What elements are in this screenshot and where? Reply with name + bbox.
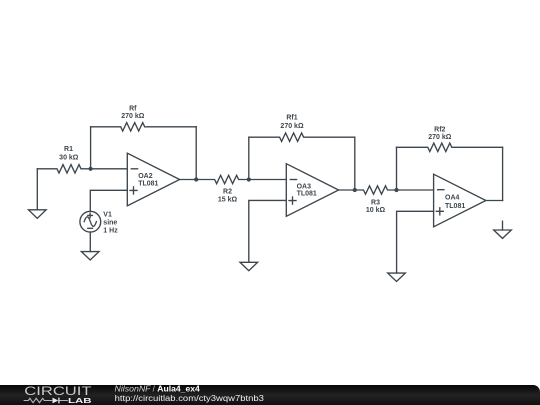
resistor R1 bbox=[37, 165, 127, 173]
op-amp U1 OA2 triangle bbox=[127, 153, 179, 206]
svg-text:Rf2: Rf2 bbox=[434, 126, 445, 133]
svg-text:15 kΩ: 15 kΩ bbox=[218, 197, 238, 204]
resistor Rf2 feedback bbox=[397, 143, 503, 151]
wire R3 junction vertical to Rf2 row bbox=[396, 147, 398, 190]
resistor Rf1 feedback bbox=[249, 133, 355, 141]
wire Rf2 right vertical to OA4 output bbox=[502, 147, 504, 200]
wire OA3 output row with resistor R3 bbox=[339, 186, 434, 194]
svg-text:sine: sine bbox=[103, 220, 117, 227]
op-amp OA2 plus sign bbox=[130, 187, 137, 194]
resistor Rf feedback bbox=[91, 123, 197, 131]
wire R2 junction vertical to Rf1 row bbox=[248, 137, 250, 179]
wire V1 top to OA2 plus input bbox=[90, 190, 127, 211]
svg-text:OA4: OA4 bbox=[445, 195, 460, 202]
svg-text:NilsonNF: NilsonNF bbox=[115, 385, 152, 394]
ground (OA3 plus input) bbox=[240, 262, 258, 270]
svg-text:Rf1: Rf1 bbox=[286, 115, 297, 122]
junction node after R1 bbox=[89, 167, 93, 171]
svg-text:R1: R1 bbox=[64, 146, 73, 153]
svg-text:LAB: LAB bbox=[68, 396, 92, 405]
svg-text:R2: R2 bbox=[223, 189, 232, 196]
wire OA4 plus input to ground drop bbox=[397, 211, 434, 273]
wire Rf right vertical to output bbox=[195, 127, 197, 180]
svg-text:10 kΩ: 10 kΩ bbox=[366, 207, 386, 214]
svg-text:TL081: TL081 bbox=[297, 191, 317, 198]
wire V1 bottom to ground bbox=[89, 232, 91, 252]
V1 minus polarity mark bbox=[88, 227, 93, 229]
svg-text:Aula4_ex4: Aula4_ex4 bbox=[157, 385, 200, 394]
svg-text:TL081: TL081 bbox=[445, 203, 465, 210]
voltage source V1 circle bbox=[80, 211, 101, 232]
junction node after R3 bbox=[394, 188, 398, 192]
svg-text:OA3: OA3 bbox=[297, 184, 312, 191]
wire Rf1 right vertical to OA3 output bbox=[354, 137, 356, 190]
svg-text:270 kΩ: 270 kΩ bbox=[428, 134, 452, 141]
V1 sine wave bbox=[84, 217, 96, 227]
svg-text:R3: R3 bbox=[371, 199, 380, 206]
svg-text:270 kΩ: 270 kΩ bbox=[121, 113, 145, 120]
svg-text:1 Hz: 1 Hz bbox=[103, 228, 118, 235]
svg-text:V1: V1 bbox=[103, 212, 112, 219]
ground (floating near output) stem bbox=[502, 221, 504, 230]
svg-text:Rf: Rf bbox=[129, 106, 137, 113]
ground (OA4 plus input) bbox=[388, 273, 406, 281]
wire node A vertical to feedback row bbox=[90, 127, 92, 169]
op-amp OA3 minus sign bbox=[290, 179, 296, 181]
junction node OA2 output bbox=[194, 177, 198, 181]
op-amp OA4 minus sign bbox=[438, 189, 444, 191]
junction node after R2 bbox=[247, 177, 251, 181]
footer logo resistor squiggle bbox=[24, 398, 68, 402]
ground (below V1) bbox=[81, 252, 99, 260]
op-amp OA4 plus sign bbox=[436, 208, 443, 215]
op-amp OA3 plus sign bbox=[289, 197, 296, 204]
ground (left of R1) bbox=[29, 210, 47, 219]
svg-text:30 kΩ: 30 kΩ bbox=[59, 154, 79, 161]
svg-text:OA2: OA2 bbox=[138, 173, 153, 180]
ground (floating near output) bbox=[494, 230, 512, 238]
wire OA4 output to feedback corner bbox=[486, 200, 503, 202]
wire OA2 output row with resistor R2 bbox=[180, 175, 287, 183]
svg-text:TL081: TL081 bbox=[138, 181, 158, 188]
wire OA3 plus input to ground drop bbox=[249, 200, 286, 262]
op-amp U3 OA4 triangle bbox=[434, 174, 486, 227]
wire R1 left lead to ground bbox=[36, 169, 38, 210]
op-amp OA2 minus sign bbox=[131, 168, 137, 170]
svg-text:http://circuitlab.com/cty3wqw7: http://circuitlab.com/cty3wqw7btnb3 bbox=[115, 394, 264, 403]
svg-text:270 kΩ: 270 kΩ bbox=[280, 123, 304, 130]
V1 plus polarity mark bbox=[88, 213, 93, 218]
op-amp U2 OA3 triangle bbox=[286, 164, 338, 217]
footer logo diode bbox=[53, 398, 59, 404]
footer bar bbox=[0, 385, 540, 405]
junction node OA3 output bbox=[353, 188, 357, 192]
